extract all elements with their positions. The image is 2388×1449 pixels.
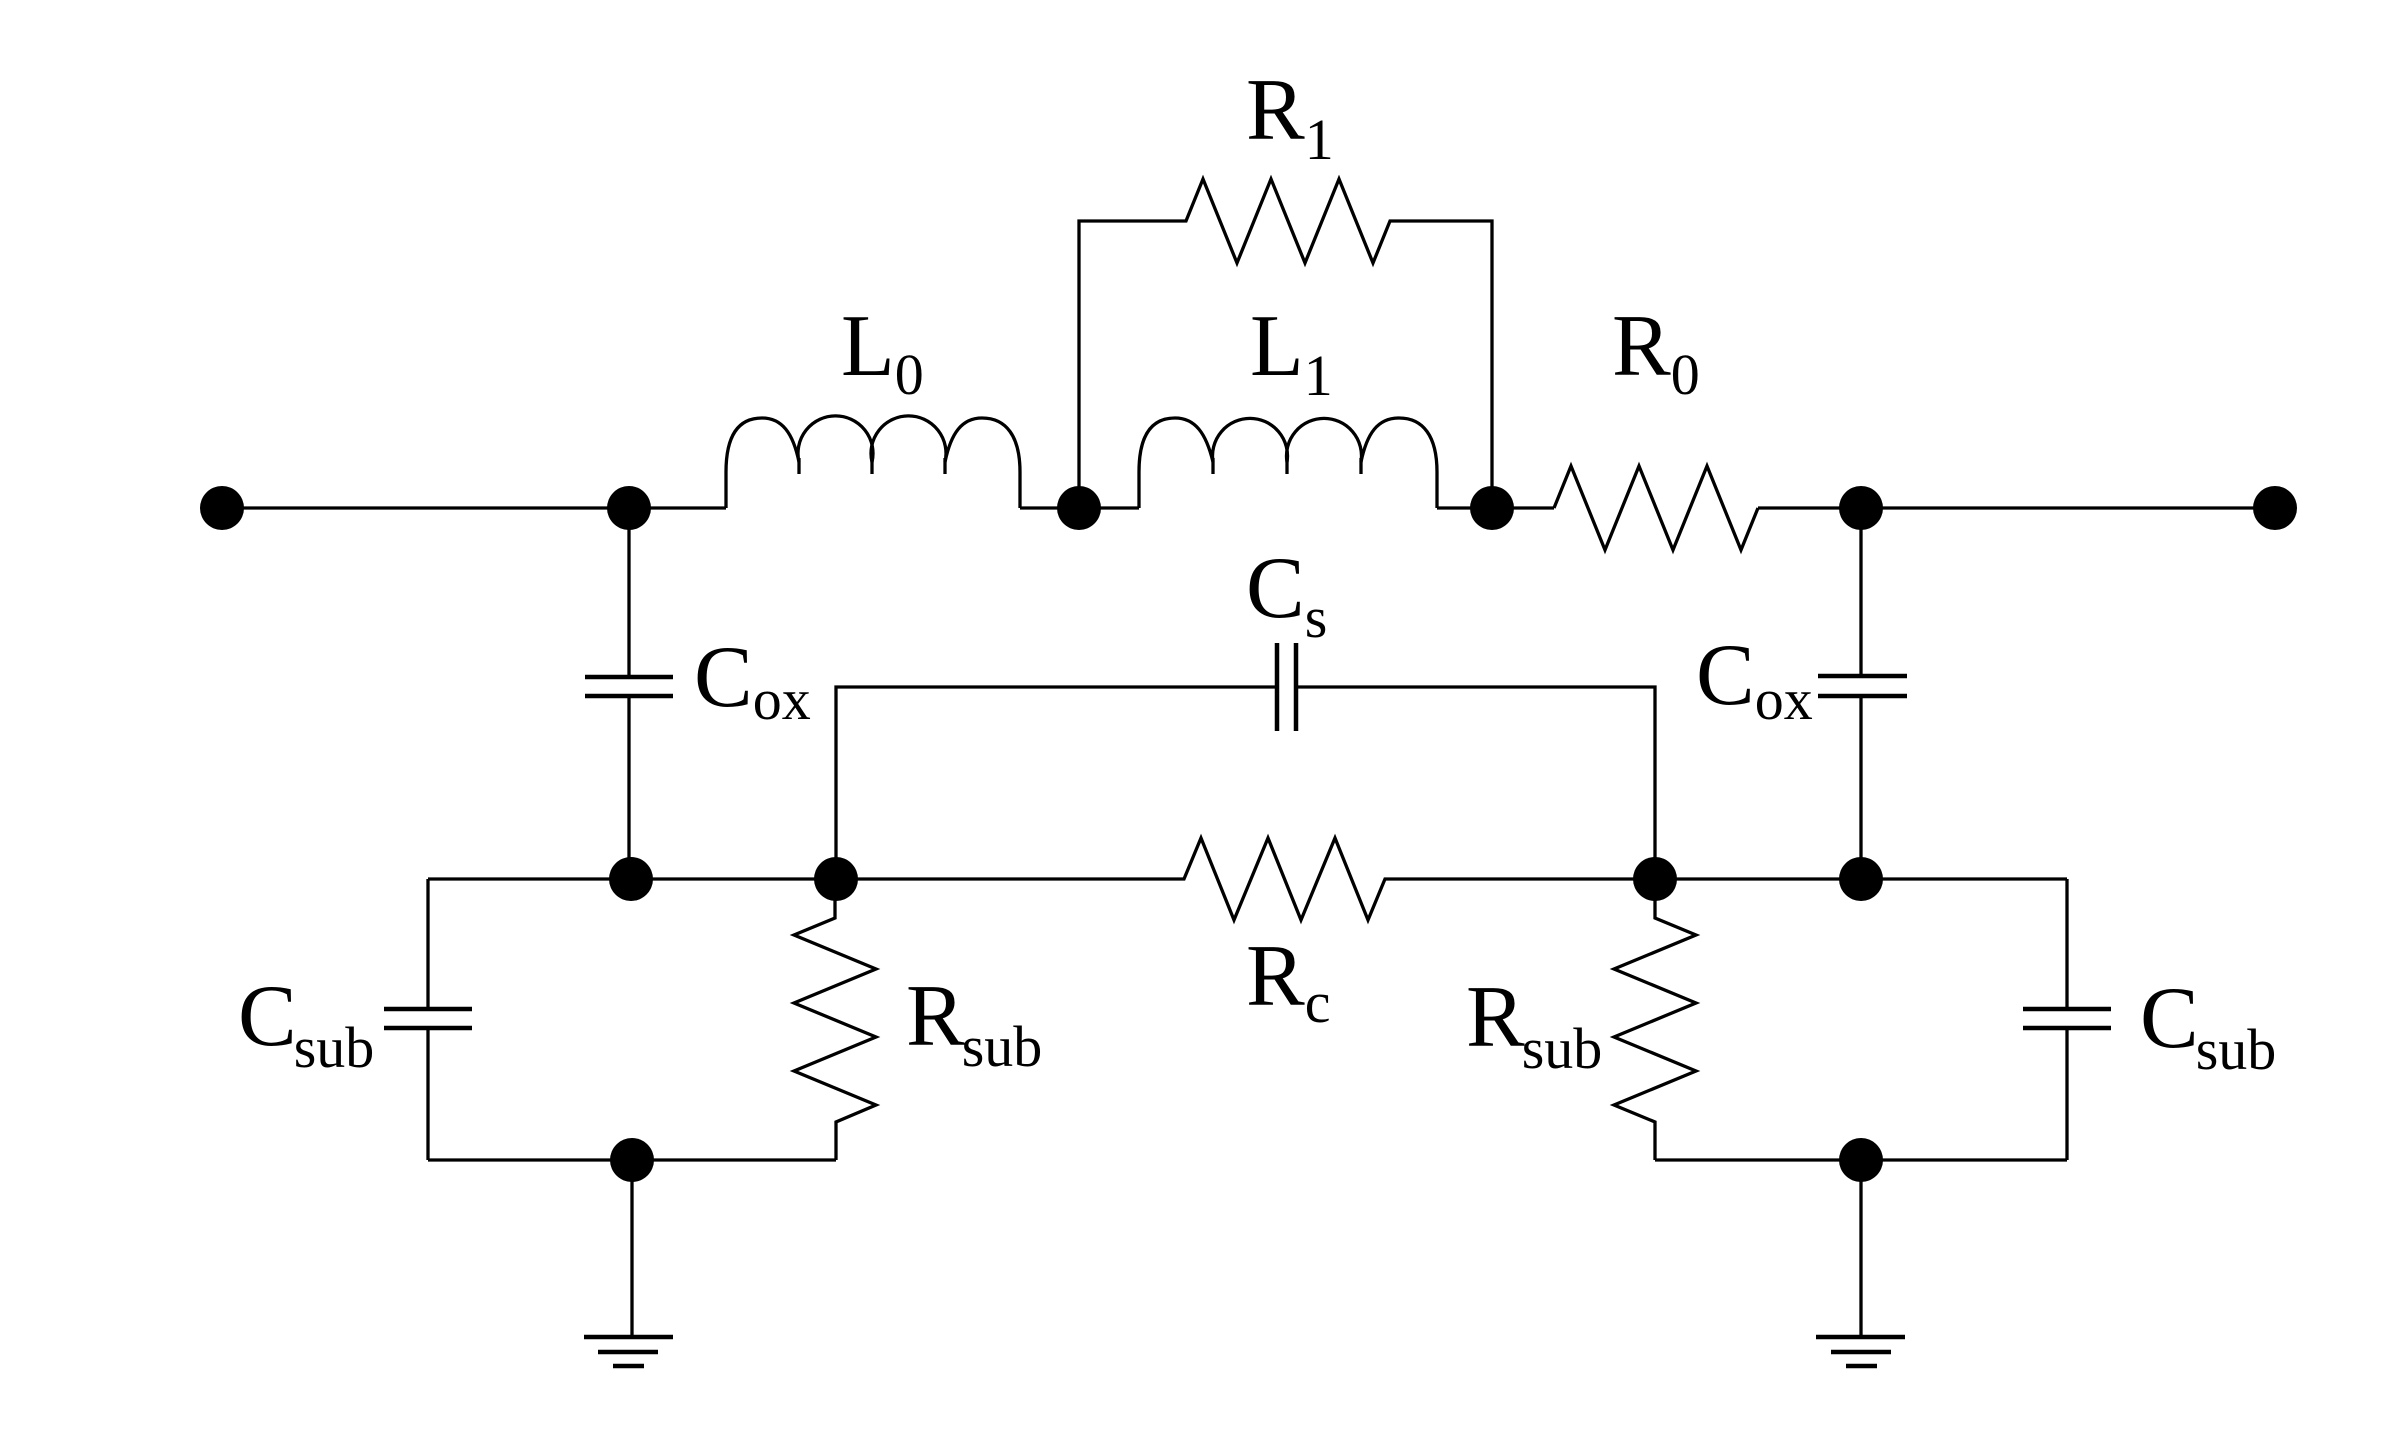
svg-text:Csub: Csub (2140, 970, 2276, 1082)
svg-text:L0: L0 (841, 298, 924, 407)
svg-text:Cox: Cox (1696, 627, 1813, 732)
svg-text:R0: R0 (1612, 298, 1700, 407)
svg-text:L1: L1 (1250, 298, 1333, 408)
svg-text:Csub: Csub (238, 968, 374, 1080)
svg-text:Rc: Rc (1246, 928, 1330, 1035)
svg-text:Rsub: Rsub (1466, 969, 1602, 1081)
svg-text:Cs: Cs (1246, 540, 1327, 650)
svg-text:Cox: Cox (694, 629, 811, 732)
svg-text:Rsub: Rsub (906, 968, 1042, 1079)
svg-text:R1: R1 (1246, 62, 1334, 172)
